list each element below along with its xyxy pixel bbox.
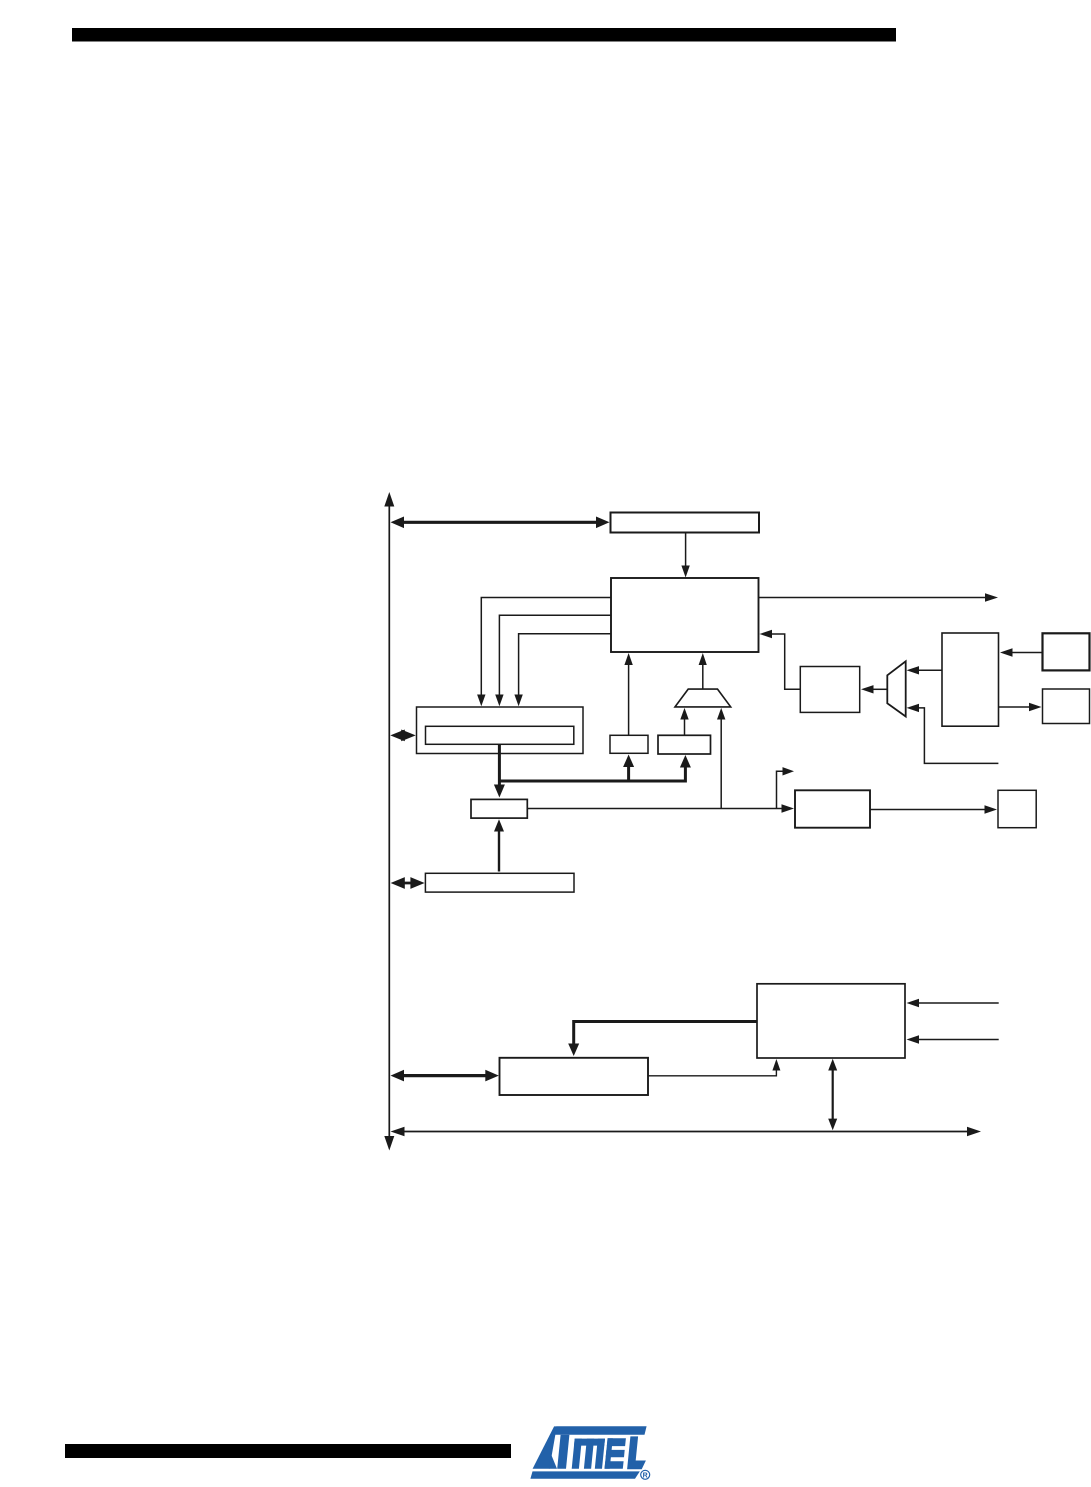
wire: compare match to waveform generator [527, 808, 782, 810]
logo letter A [533, 1426, 557, 1468]
logo letter L [627, 1436, 646, 1469]
wire: ASSRn writeback to synchronization unit [648, 1070, 776, 1076]
wire: TOSC1 to oscillator [1012, 652, 1043, 654]
data bus (vertical DATA BUS line) [388, 505, 390, 1137]
wire: data path branch to TOP detect (thick) [627, 766, 630, 783]
wire: TCNTn data path down (thick) [498, 744, 501, 786]
T/C oscillator [942, 633, 999, 726]
TOP-value mux (trapezoid) [675, 689, 731, 707]
wire: bus to TCCRn register (thick double arrow) [395, 521, 605, 524]
comparator =0 (BOTTOM detect) [658, 735, 711, 754]
8-bit comparator = [471, 799, 527, 818]
Atmel logo [530, 1426, 649, 1479]
wire: bus to TCNTn (thick double arrow) [396, 734, 410, 737]
OCn pin [998, 790, 1036, 827]
wire: TCCRn to control logic [685, 533, 687, 567]
wire: oscillator to TOSC2 [999, 706, 1031, 708]
register TCCRn [611, 513, 760, 533]
wire: asynchronous mode select line (double arrow) [397, 1131, 970, 1133]
TCNTn register inner box [426, 726, 574, 744]
wire: TOP detect to control logic [628, 665, 630, 735]
wire: OCRn value to TOP mux [720, 719, 722, 809]
synchronization unit [757, 984, 905, 1058]
wire: waveform generator to OCn pin [870, 809, 985, 811]
logo registered trademark [641, 1470, 650, 1479]
OCRn register [425, 873, 574, 892]
logo base bar [530, 1471, 639, 1478]
wire: data path branch to BOTTOM detect (thick) [684, 767, 687, 783]
prescaler [800, 667, 859, 713]
ASSRn register [500, 1058, 649, 1095]
logo letter m [574, 1439, 605, 1446]
clock select mux (trapezoid) [887, 661, 905, 716]
wire: synchronization unit to ASSRn (thick) [574, 1022, 757, 1046]
wire: OCFn interrupt request branch [777, 771, 785, 808]
wire: oscillator clock to clock select mux [918, 669, 942, 671]
TOSC1 pin [1043, 633, 1090, 670]
wire: synchronization unit to async select line (double arrow) [832, 1068, 834, 1122]
wire: clock select mux to prescaler [873, 688, 887, 690]
TOSC2 pin [1043, 689, 1090, 724]
footer rule bar [65, 1444, 511, 1458]
wire: direction signal (control logic to TCNTn) [519, 634, 611, 695]
control logic U1 [611, 578, 759, 652]
wire: bus to OCRn (thick double arrow) [398, 882, 418, 885]
wire: clkI/O to clock select mux [918, 708, 998, 764]
wire: clkTn to control logic [771, 634, 800, 689]
wire: TOVn interrupt request output [759, 597, 987, 599]
wire: OCRn to comparator (thick) [498, 831, 500, 872]
logo T stem [557, 1435, 569, 1469]
header rule bar [72, 28, 896, 42]
wire: clkASY input to synchronization unit [918, 1039, 999, 1041]
wire: TOP mux to control logic [702, 665, 704, 689]
comparator =0xFF (TOP detect) [610, 735, 648, 753]
Timer/Counter TCNTn outer box [417, 707, 584, 754]
wire: BOTTOM detect to TOP mux [684, 719, 686, 735]
svg-text:R: R [643, 1473, 648, 1480]
logo letter E [605, 1438, 613, 1469]
data bus bottom arrowhead [384, 1136, 394, 1151]
wire: count signal (control logic to TCNTn) [481, 598, 611, 696]
waveform generator [795, 790, 870, 827]
wire: TCNTn data path to comparators (thick) [499, 780, 685, 783]
data bus top arrowhead [384, 492, 394, 507]
wire: bus to ASSRn (thick double arrow) [398, 1074, 492, 1077]
wire: clear signal (control logic to TCNTn) [499, 615, 611, 695]
wire: clkI/O input to synchronization unit [918, 1002, 999, 1004]
logo T bar (top bar) [554, 1426, 646, 1435]
